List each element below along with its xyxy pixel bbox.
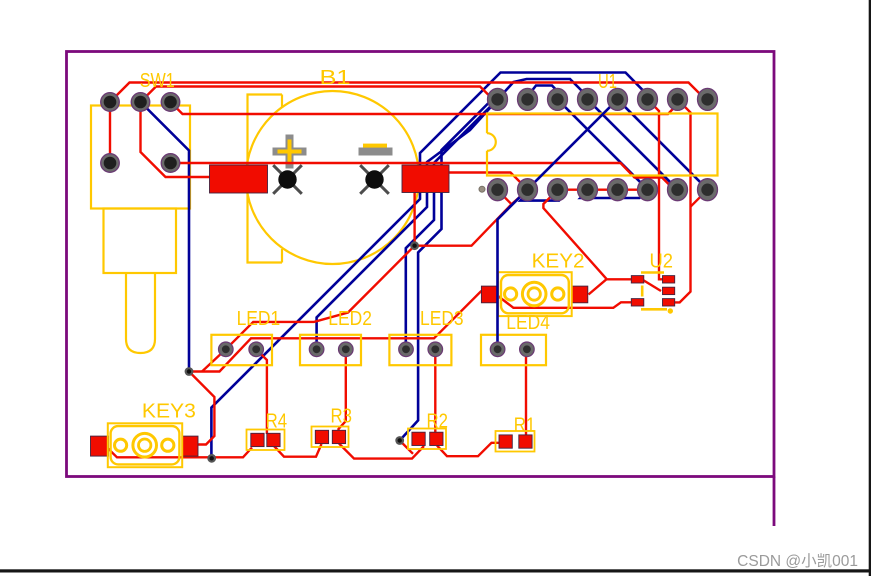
svg-text:R1: R1 bbox=[514, 414, 536, 436]
svg-text:LED2: LED2 bbox=[328, 308, 372, 330]
svg-text:R3: R3 bbox=[331, 406, 353, 428]
svg-text:CSDN @小凯001: CSDN @小凯001 bbox=[737, 552, 858, 570]
svg-text:B1: B1 bbox=[320, 67, 351, 89]
svg-text:LED1: LED1 bbox=[237, 308, 281, 330]
svg-text:KEY3: KEY3 bbox=[142, 401, 196, 423]
svg-text:U2: U2 bbox=[650, 251, 674, 273]
svg-text:R2: R2 bbox=[427, 411, 449, 433]
svg-text:LED4: LED4 bbox=[506, 312, 550, 334]
svg-text:R4: R4 bbox=[266, 411, 288, 433]
svg-text:KEY2: KEY2 bbox=[532, 250, 585, 272]
svg-text:SW1: SW1 bbox=[140, 70, 175, 92]
svg-text:LED3: LED3 bbox=[420, 308, 464, 330]
